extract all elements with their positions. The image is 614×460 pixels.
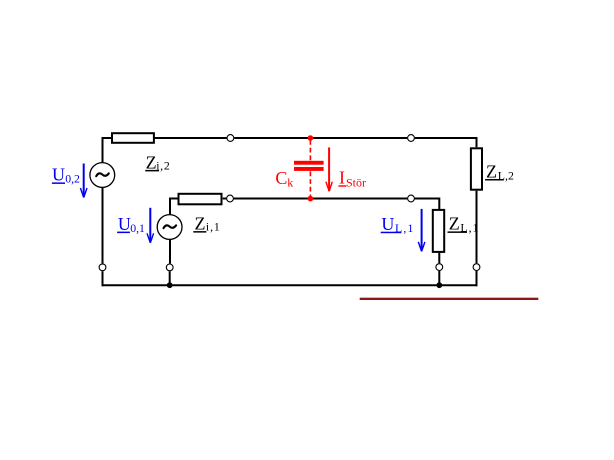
svg-text:Z: Z [146, 153, 157, 173]
svg-text:U: U [381, 214, 394, 234]
svg-text:U: U [118, 214, 131, 234]
svg-text:k: k [287, 175, 293, 189]
svg-text:Z: Z [449, 214, 460, 234]
svg-text:C: C [275, 168, 287, 188]
svg-text:Z: Z [486, 162, 497, 182]
svg-text:Z: Z [195, 213, 206, 233]
svg-text:Stör: Stör [346, 176, 366, 190]
svg-text:0,1: 0,1 [130, 221, 145, 235]
svg-text:U: U [52, 165, 65, 185]
svg-text:i,1: i,1 [206, 220, 221, 234]
svg-text:I: I [339, 168, 345, 188]
svg-text:0,2: 0,2 [65, 172, 80, 186]
